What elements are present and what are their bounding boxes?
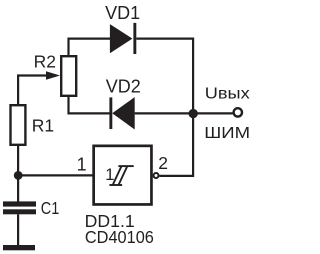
- wire: [69, 97, 110, 114]
- svg-text:R2: R2: [34, 52, 56, 72]
- svg-text:1: 1: [105, 166, 114, 184]
- svg-text:CD40106: CD40106: [85, 227, 154, 247]
- hysteresis symbol: [109, 166, 133, 185]
- wire: [17, 214, 19, 245]
- svg-text:1: 1: [77, 155, 87, 175]
- output terminal circle: [234, 108, 242, 116]
- op-amp style IC box DD1.1 (Schmitt trigger inverter): [94, 146, 152, 205]
- node junction right: [189, 109, 198, 118]
- svg-text:C1: C1: [41, 198, 60, 218]
- wire: [18, 76, 48, 106]
- svg-text:R1: R1: [32, 115, 54, 135]
- diode VD1: [110, 23, 136, 54]
- capacitor C1: [3, 201, 36, 214]
- svg-text:Uвых: Uвых: [205, 85, 250, 102]
- wire: [17, 145, 19, 202]
- resistor R1: [11, 105, 26, 145]
- svg-text:VD1: VD1: [105, 3, 140, 23]
- svg-text:ШИМ: ШИМ: [204, 125, 250, 142]
- wiper arrow into R2: [46, 71, 60, 79]
- wire pin1 net: [18, 174, 93, 176]
- svg-text:2: 2: [158, 153, 168, 173]
- ground: [3, 245, 35, 250]
- wire: [136, 39, 193, 176]
- node junction left: [14, 171, 23, 180]
- wire: [69, 39, 111, 56]
- inverter output bubble: [154, 173, 159, 178]
- diode VD2: [109, 97, 134, 129]
- svg-text:VD2: VD2: [106, 76, 141, 96]
- wire output net: [135, 112, 233, 114]
- resistor R2: [61, 56, 76, 96]
